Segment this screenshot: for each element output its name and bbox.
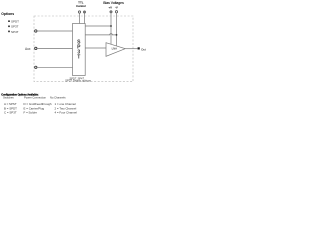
bullet SP4T bbox=[8, 31, 10, 33]
background bbox=[0, 0, 150, 121]
svg-text:Bias Voltages: Bias Voltages bbox=[103, 1, 124, 5]
svg-text:B = SPDT: B = SPDT bbox=[4, 106, 17, 110]
svg-text:Switches: Switches bbox=[3, 96, 14, 100]
wire input 2 bbox=[37, 47, 73, 49]
svg-text:Out: Out bbox=[141, 47, 146, 51]
svg-text:D = Gnd/Feedthrough: D = Gnd/Feedthrough bbox=[24, 102, 52, 106]
svg-text:E = Carrier/Plug: E = Carrier/Plug bbox=[24, 106, 45, 110]
pin Out bbox=[138, 47, 140, 49]
pin +V bbox=[110, 11, 113, 14]
svg-text:A = SPST: A = SPST bbox=[4, 102, 17, 106]
svg-text:2 = Two Channel: 2 = Two Channel bbox=[55, 106, 77, 110]
wire +V down to LNA bbox=[110, 13, 112, 44]
wire TTL1 down bbox=[79, 13, 81, 23]
pin input 1 bbox=[35, 30, 37, 32]
svg-text:+V: +V bbox=[108, 5, 112, 9]
bullet SPDT bbox=[8, 20, 10, 22]
wire block to +V rail bbox=[85, 25, 111, 27]
svg-text:Power Connection: Power Connection bbox=[24, 96, 46, 100]
wire block to -V rail with hop over +V rail bbox=[85, 34, 116, 35]
svg-text:T: T bbox=[77, 54, 80, 60]
svg-text:1 = one Channel: 1 = one Channel bbox=[55, 102, 77, 106]
junction dot at +V rail bbox=[110, 25, 112, 27]
pin TTL2 bbox=[83, 11, 86, 14]
pin input 3 bbox=[35, 66, 37, 68]
dashed enclosure box bbox=[34, 16, 133, 82]
svg-text:SP3T Switch options: SP3T Switch options bbox=[65, 78, 91, 82]
svg-text:SP3T: SP3T bbox=[11, 25, 19, 29]
svg-text:SP4T: SP4T bbox=[11, 30, 19, 34]
svg-text:Control: Control bbox=[76, 4, 86, 8]
svg-text:Options: Options bbox=[1, 12, 14, 16]
svg-text:F = Solder: F = Solder bbox=[24, 111, 37, 115]
wire input 3 bbox=[37, 66, 73, 68]
op-amp LNA bbox=[106, 43, 125, 57]
pin TTL1 bbox=[78, 11, 80, 13]
wire switch output to LNA input bbox=[85, 47, 106, 49]
switch block SP3T bbox=[73, 24, 86, 76]
svg-text:No Channels: No Channels bbox=[50, 96, 66, 100]
pin -V bbox=[115, 11, 117, 13]
svg-text:LNA: LNA bbox=[112, 47, 118, 51]
wire input 1 bbox=[37, 30, 73, 32]
svg-text:-V: -V bbox=[115, 5, 118, 9]
svg-text:Aux: Aux bbox=[25, 47, 31, 51]
bullet SP3T bbox=[8, 26, 10, 28]
svg-text:4 = Four Channel: 4 = Four Channel bbox=[55, 111, 78, 115]
pin input 2 bbox=[35, 47, 37, 49]
svg-text:SPDT: SPDT bbox=[11, 20, 19, 24]
wire LNA output bbox=[125, 48, 137, 50]
wire -V down to LNA bbox=[116, 13, 118, 46]
svg-text:C = SP3T: C = SP3T bbox=[4, 111, 17, 115]
wire TTL2 down bbox=[84, 13, 86, 23]
junction dot at -V rail bbox=[116, 34, 118, 36]
